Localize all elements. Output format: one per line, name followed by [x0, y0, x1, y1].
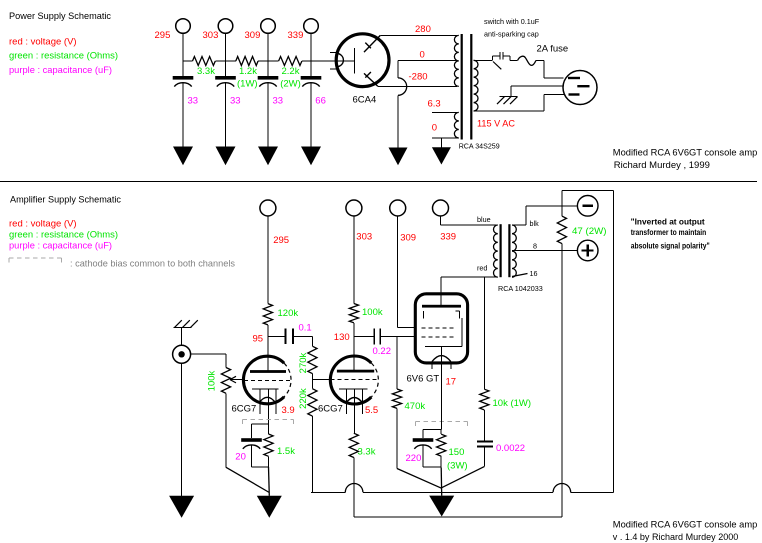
svg-text:100k: 100k [362, 307, 383, 318]
svg-text:red : voltage (V): red : voltage (V) [9, 219, 77, 230]
svg-text:purple : capacitance (uF): purple : capacitance (uF) [9, 241, 112, 252]
svg-text:1.2k: 1.2k [239, 66, 257, 77]
svg-text:16: 16 [530, 269, 538, 278]
svg-text:280: 280 [415, 24, 431, 35]
svg-text:red : voltage (V): red : voltage (V) [9, 37, 77, 48]
svg-text:33: 33 [188, 96, 199, 107]
svg-text:0: 0 [432, 123, 437, 134]
svg-text:470k: 470k [405, 401, 426, 412]
svg-text:Amplifier Supply Schematic: Amplifier Supply Schematic [10, 195, 121, 206]
svg-text:309: 309 [400, 233, 416, 244]
svg-text:(3W): (3W) [447, 461, 468, 472]
svg-text:red: red [477, 264, 487, 273]
svg-text:Modified RCA 6V6GT console amp: Modified RCA 6V6GT console amp [613, 519, 758, 530]
svg-text:3.9: 3.9 [282, 405, 295, 416]
svg-text:95: 95 [253, 334, 264, 345]
svg-text:220: 220 [406, 453, 422, 464]
svg-text:6V6 GT: 6V6 GT [407, 373, 440, 384]
svg-text:0.1: 0.1 [299, 323, 312, 334]
svg-text:blk: blk [530, 219, 540, 228]
svg-text:blue: blue [477, 215, 491, 224]
svg-text:v . 1.4 by Richard Murdey 2000: v . 1.4 by Richard Murdey 2000 [613, 532, 739, 543]
svg-text:3.3k: 3.3k [358, 446, 376, 457]
svg-text:6CA4: 6CA4 [353, 95, 377, 106]
svg-text:2A fuse: 2A fuse [537, 44, 569, 55]
svg-text:6CG7: 6CG7 [318, 404, 343, 415]
svg-text:6CG7: 6CG7 [232, 403, 257, 414]
svg-text:Modified RCA 6V6GT console amp: Modified RCA 6V6GT console amp [613, 147, 758, 158]
svg-text:1.5k: 1.5k [277, 446, 295, 457]
svg-text:green : resistance (Ohms): green : resistance (Ohms) [9, 51, 118, 62]
svg-text:RCA 34S259: RCA 34S259 [459, 142, 500, 151]
svg-text:0: 0 [420, 50, 425, 61]
svg-text:33: 33 [230, 96, 241, 107]
svg-text:5.5: 5.5 [365, 405, 378, 416]
svg-text:6.3: 6.3 [428, 99, 441, 110]
svg-text:100k: 100k [207, 370, 218, 391]
svg-text:-280: -280 [409, 72, 428, 83]
svg-text:switch with 0.1uF: switch with 0.1uF [484, 17, 540, 26]
svg-text:270k: 270k [298, 352, 309, 373]
svg-text:absolute signal polarity": absolute signal polarity" [631, 241, 710, 250]
svg-text:2.2k: 2.2k [282, 66, 300, 77]
svg-text:120k: 120k [278, 308, 299, 319]
svg-text:339: 339 [440, 232, 456, 243]
svg-text:303: 303 [356, 232, 372, 243]
svg-text:220k: 220k [298, 388, 309, 409]
svg-text:150: 150 [449, 447, 465, 458]
svg-text:3.3k: 3.3k [197, 66, 215, 77]
svg-text:33: 33 [273, 96, 284, 107]
svg-text:anti-sparking cap: anti-sparking cap [484, 29, 539, 38]
svg-text:0.22: 0.22 [373, 346, 392, 357]
svg-text:0.0022: 0.0022 [496, 443, 525, 454]
svg-text:47 (2W): 47 (2W) [572, 226, 607, 237]
svg-text:66: 66 [315, 96, 326, 107]
svg-text:(2W): (2W) [280, 78, 301, 89]
svg-text:295: 295 [273, 235, 289, 246]
svg-text:130: 130 [334, 332, 350, 343]
svg-text:8: 8 [533, 241, 537, 250]
svg-text:"Inverted at output: "Inverted at output [631, 217, 705, 226]
svg-text:115 V AC: 115 V AC [477, 119, 515, 130]
svg-text:(1W): (1W) [237, 78, 258, 89]
svg-text:17: 17 [446, 377, 457, 388]
svg-text:green : resistance (Ohms): green : resistance (Ohms) [9, 230, 118, 241]
svg-text:Power Supply Schematic: Power Supply Schematic [9, 11, 111, 22]
svg-text:20: 20 [235, 452, 246, 463]
svg-text:transformer to maintain: transformer to maintain [631, 228, 707, 237]
svg-text:Richard Murdey , 1999: Richard Murdey , 1999 [614, 160, 710, 171]
svg-text:10k (1W): 10k (1W) [493, 398, 532, 409]
svg-text:309: 309 [245, 30, 261, 41]
svg-text:RCA 1042033: RCA 1042033 [498, 284, 543, 293]
svg-text:295: 295 [155, 30, 171, 41]
svg-text:303: 303 [203, 30, 219, 41]
svg-text:339: 339 [288, 30, 304, 41]
svg-text:: cathode bias common to both: : cathode bias common to both channels [70, 258, 235, 269]
svg-text:purple : capacitance (uF): purple : capacitance (uF) [9, 65, 112, 76]
